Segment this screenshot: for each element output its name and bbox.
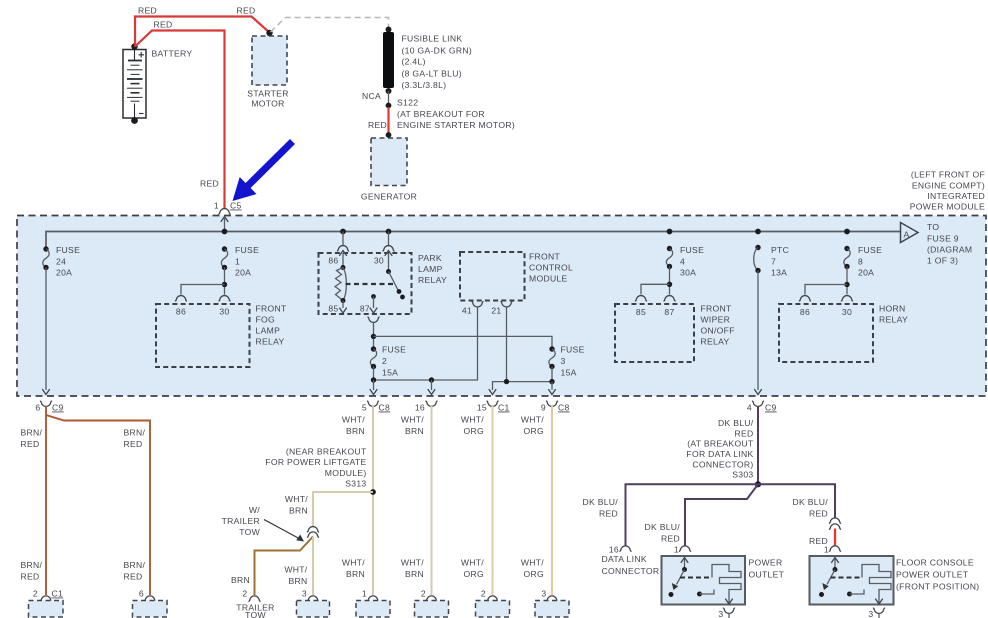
svg-text:7: 7 — [771, 256, 776, 266]
wire WHT/ORG pin 15 down — [461, 406, 493, 595]
svg-text:BRN: BRN — [288, 576, 307, 586]
svg-text:RED: RED — [138, 6, 157, 16]
wire DK BLU/RED S303 to floor console — [758, 484, 835, 518]
fuse F24 — [43, 245, 80, 278]
svg-text:MODULE: MODULE — [529, 274, 568, 284]
svg-text:2: 2 — [242, 589, 247, 599]
wire fuse 1 to front fog lamp relay — [181, 268, 227, 295]
svg-text:S313: S313 — [345, 479, 366, 489]
W/ TRAILER TOW label and annotation arrow — [222, 505, 304, 542]
starter motor M1 — [247, 36, 288, 109]
svg-text:41: 41 — [462, 306, 472, 316]
wire to pin 16 arrow — [428, 380, 435, 395]
svg-text:RED: RED — [21, 439, 40, 449]
power outlet heating element — [697, 565, 741, 605]
fuse F2 — [370, 345, 406, 378]
svg-text:RED: RED — [200, 179, 219, 189]
wire fuse 4 to front wiper relay — [641, 267, 672, 295]
connector pin 21 front control module — [491, 302, 512, 316]
svg-text:13A: 13A — [771, 268, 787, 278]
wire branch to fuse 3 — [374, 336, 553, 349]
svg-text:LAMP: LAMP — [418, 264, 443, 274]
svg-text:TOW: TOW — [245, 610, 266, 618]
svg-text:FOR POWER LIFTGATE: FOR POWER LIFTGATE — [265, 457, 366, 467]
svg-text:S122: S122 — [397, 98, 418, 108]
connector pin 2 bottom — [421, 589, 438, 602]
floor console outlet mechanical link (dashed) — [831, 577, 863, 579]
svg-text:16: 16 — [415, 403, 425, 413]
wire to pin 15 arrow — [489, 389, 496, 394]
wire WHT/BRN pin 16 down — [401, 406, 432, 595]
svg-text:RED: RED — [809, 509, 828, 519]
wire fuse 3 to pin 21 net — [493, 307, 555, 391]
svg-text:WHT/: WHT/ — [521, 558, 544, 568]
module box below pin 3 — [535, 601, 569, 618]
park lamp relay pin 85 arrow — [328, 301, 346, 314]
park lamp relay pin 30 arrow and switch — [374, 251, 405, 300]
svg-text:FRONT: FRONT — [256, 304, 288, 314]
module box below pin 2 — [415, 601, 449, 618]
connector pin 1 bottom — [362, 589, 379, 602]
blue annotation arrow — [233, 139, 296, 201]
svg-text:RED: RED — [661, 534, 680, 544]
svg-text:FUSE: FUSE — [56, 245, 80, 255]
svg-text:ORG: ORG — [464, 569, 484, 579]
svg-text:1: 1 — [674, 545, 679, 555]
wire WHT/BRN S313 branch to trailer tow connector — [285, 492, 373, 526]
wire WHT/BRN pin 5 down — [342, 406, 373, 595]
connector C1 pin 2 bottom left — [33, 589, 63, 602]
relay K1 front fog lamp relay — [156, 304, 287, 368]
svg-text:(AT BREAKOUT FOR: (AT BREAKOUT FOR — [397, 109, 485, 119]
svg-text:FUSE 9: FUSE 9 — [927, 234, 959, 244]
svg-text:ORG: ORG — [524, 569, 544, 579]
wire RED battery to starter motor — [135, 6, 270, 47]
connector pin 16 data link connector — [602, 545, 660, 577]
wire pin 87 to fuse 2 — [373, 322, 375, 349]
svg-text:CONNECTOR): CONNECTOR) — [692, 459, 753, 469]
park lamp relay mechanical link (dashed) — [346, 283, 395, 285]
floor console outlet switch — [819, 558, 839, 598]
svg-text:3: 3 — [718, 609, 723, 618]
svg-text:86: 86 — [328, 256, 338, 266]
svg-text:(10 GA-DK GRN): (10 GA-DK GRN) — [402, 46, 473, 56]
svg-text:30: 30 — [842, 307, 852, 317]
svg-text:1: 1 — [824, 545, 829, 555]
svg-text:RELAY: RELAY — [701, 337, 730, 347]
wire BRN/RED branch right — [46, 415, 150, 595]
node S122 — [386, 98, 515, 131]
svg-text:ORG: ORG — [464, 426, 484, 436]
svg-text:RED: RED — [368, 120, 387, 130]
power outlet box — [662, 556, 785, 605]
bus wire — [46, 232, 901, 250]
svg-text:21: 21 — [491, 306, 501, 316]
svg-text:BRN: BRN — [231, 575, 250, 585]
svg-text:6: 6 — [139, 589, 144, 599]
svg-text:3: 3 — [868, 609, 873, 618]
svg-text:LAMP: LAMP — [256, 326, 281, 336]
svg-text:C9: C9 — [765, 403, 777, 413]
connector pin 87 below park lamp relay — [367, 317, 379, 322]
connector C9 pin 4 — [747, 401, 777, 412]
svg-text:(LEFT FRONT OF: (LEFT FRONT OF — [911, 170, 985, 180]
inline connector floor console — [829, 518, 841, 529]
svg-text:FUSE: FUSE — [235, 245, 259, 255]
svg-text:87: 87 — [360, 304, 370, 314]
node S313 — [265, 447, 376, 495]
wire NCA fusible link to S122 — [362, 91, 389, 106]
wire BRN/RED pin 6 down — [21, 406, 47, 595]
svg-text:BRN: BRN — [405, 426, 424, 436]
svg-text:WHT/: WHT/ — [342, 558, 365, 568]
node bus fuse 4 — [667, 229, 673, 235]
node bus PTC 7 — [755, 229, 761, 235]
svg-text:PARK: PARK — [418, 253, 442, 263]
svg-text:WHT/: WHT/ — [461, 415, 484, 425]
svg-text:C8: C8 — [379, 403, 391, 413]
svg-text:TOW: TOW — [239, 527, 260, 537]
svg-text:DK BLU/: DK BLU/ — [582, 497, 618, 507]
relay K3 front wiper on/off relay — [615, 304, 735, 363]
module box below pin 2 second — [476, 601, 510, 618]
svg-text:POWER: POWER — [749, 558, 783, 568]
svg-text:(AT BREAKOUT: (AT BREAKOUT — [687, 439, 754, 449]
svg-text:30A: 30A — [680, 268, 696, 278]
svg-text:RED: RED — [599, 509, 618, 519]
svg-text:FRONT: FRONT — [529, 252, 561, 262]
svg-text:WHT/: WHT/ — [285, 494, 308, 504]
module box below pin 6 — [133, 601, 168, 618]
wire to pin 9 arrow — [548, 382, 555, 395]
connector pin 1 floor console outlet — [824, 545, 841, 555]
svg-text:NCA: NCA — [362, 91, 381, 101]
svg-text:S303: S303 — [732, 470, 753, 480]
svg-text:RED: RED — [124, 439, 143, 449]
svg-text:TRAILER: TRAILER — [222, 516, 260, 526]
svg-text:GENERATOR: GENERATOR — [361, 192, 417, 202]
svg-text:RELAY: RELAY — [879, 315, 908, 325]
svg-text:FUSIBLE LINK: FUSIBLE LINK — [402, 34, 463, 44]
wire bus to park lamp relay pin 86 — [342, 232, 344, 246]
module box below pin 2 C1 — [29, 601, 64, 618]
wire bus to park lamp relay pin 30 — [388, 232, 390, 246]
svg-text:1: 1 — [214, 201, 219, 211]
fuse F8 — [844, 245, 882, 278]
svg-text:WHT/: WHT/ — [461, 558, 484, 568]
svg-text:16: 16 — [609, 545, 619, 555]
svg-text:MOTOR: MOTOR — [251, 99, 284, 109]
svg-text:(3.3L/3.8L): (3.3L/3.8L) — [402, 80, 447, 90]
svg-text:6: 6 — [35, 403, 40, 413]
svg-text:PTC: PTC — [771, 245, 789, 255]
wire to pin 5 arrow — [370, 380, 377, 395]
svg-text:BRN/: BRN/ — [124, 560, 146, 570]
wire fuse 2 to pin 41 net — [371, 307, 478, 383]
svg-text:FLOOR CONSOLE: FLOOR CONSOLE — [896, 558, 974, 568]
IPM header label — [910, 170, 985, 212]
svg-text:FUSE: FUSE — [561, 345, 585, 355]
svg-text:MODULE): MODULE) — [325, 468, 367, 478]
connector pin 30 front fog lamp relay — [218, 296, 230, 301]
svg-text:4: 4 — [747, 403, 752, 413]
off-page arrow A to fuse 9 — [901, 222, 973, 266]
wire DK BLU/RED pin 4 to S303 — [686, 406, 758, 484]
svg-text:BRN/: BRN/ — [21, 428, 43, 438]
svg-text:FUSE: FUSE — [382, 345, 406, 355]
park lamp relay pin 87 — [360, 294, 377, 313]
svg-text:WIPER: WIPER — [701, 315, 731, 325]
relay K2 park lamp relay — [319, 253, 448, 314]
power outlet mechanical link (dashed) — [680, 577, 712, 579]
svg-text:RELAY: RELAY — [256, 337, 285, 347]
node bus fuse 8 — [844, 229, 850, 235]
floor console outlet heating element — [847, 565, 891, 605]
svg-text:3: 3 — [541, 589, 546, 599]
wire PTC 7 to pin 4 — [754, 271, 761, 395]
svg-text:15A: 15A — [561, 368, 577, 378]
svg-text:(2.4L): (2.4L) — [402, 57, 426, 67]
wire fuse 8 to horn relay — [805, 267, 850, 295]
PTC 7 — [754, 245, 789, 278]
fuse F3 — [549, 345, 585, 378]
node fuse2 branch — [371, 334, 376, 339]
svg-text:INTEGRATED: INTEGRATED — [927, 191, 985, 201]
svg-text:RED: RED — [236, 6, 255, 16]
svg-text:3: 3 — [302, 589, 307, 599]
connector pin 2 bottom second — [481, 589, 499, 602]
wire WHT/ORG pin 9 down — [521, 406, 552, 595]
svg-text:BATTERY: BATTERY — [152, 49, 193, 59]
svg-text:POWER OUTLET: POWER OUTLET — [896, 570, 969, 580]
connector pin 3 bottom — [541, 589, 558, 602]
svg-text:1: 1 — [235, 256, 240, 266]
wire DK BLU/RED S303 to data link connector — [582, 484, 758, 546]
svg-text:30: 30 — [374, 256, 384, 266]
svg-text:5: 5 — [362, 403, 367, 413]
svg-text:TO: TO — [927, 222, 939, 232]
node S303 — [755, 481, 761, 487]
svg-text:FOR DATA LINK: FOR DATA LINK — [686, 449, 753, 459]
svg-text:15: 15 — [477, 403, 487, 413]
svg-text:2: 2 — [382, 356, 387, 366]
connector pin 85 front wiper relay — [635, 296, 647, 301]
connector pin 3 trailer column — [302, 589, 319, 602]
wire NCA starter to fusible link (dashed) — [271, 18, 389, 33]
svg-text:RED: RED — [124, 572, 143, 582]
connector pin 3 floor console outlet — [868, 599, 885, 618]
svg-text:3: 3 — [561, 356, 566, 366]
svg-text:BRN: BRN — [289, 506, 308, 516]
connector C9 pin 6 — [35, 401, 63, 412]
svg-text:RED: RED — [734, 428, 753, 438]
module box below pin 1 — [356, 601, 390, 618]
svg-text:BRN/: BRN/ — [21, 560, 43, 570]
park lamp relay coil — [335, 265, 346, 303]
connector pin 2 trailer tow — [236, 589, 274, 618]
fuse F4 — [666, 245, 704, 278]
svg-text:FUSE: FUSE — [858, 245, 882, 255]
svg-text:ORG: ORG — [524, 426, 544, 436]
svg-text:DK BLU/: DK BLU/ — [644, 522, 680, 532]
svg-text:OUTLET: OUTLET — [749, 570, 785, 580]
svg-text:A: A — [904, 230, 910, 240]
svg-text:C8: C8 — [558, 403, 570, 413]
connector pin 87 front wiper relay — [663, 296, 675, 301]
svg-text:BRN: BRN — [405, 569, 424, 579]
connector pin 6 bottom — [139, 589, 156, 602]
svg-text:86: 86 — [176, 307, 186, 317]
node battery-starter junction — [266, 30, 272, 36]
connector pin 86 front fog lamp relay — [175, 296, 187, 301]
svg-text:1: 1 — [362, 589, 367, 599]
svg-text:BRN: BRN — [346, 426, 365, 436]
svg-text:4: 4 — [680, 256, 685, 266]
inline connector w/ trailer tow — [307, 527, 319, 538]
svg-text:85: 85 — [328, 304, 338, 314]
svg-text:WHT/: WHT/ — [342, 415, 365, 425]
wire WHT/BRN trailer connector to pin 3 — [284, 537, 313, 595]
svg-text:FUSE: FUSE — [680, 245, 704, 255]
wire RED battery to C5 — [135, 20, 225, 209]
svg-text:RELAY: RELAY — [418, 275, 447, 285]
connector pin 3 power outlet — [718, 599, 735, 618]
svg-text:C5: C5 — [230, 201, 242, 211]
connector pin 41 front control module — [462, 302, 484, 316]
svg-text:C1: C1 — [52, 589, 64, 599]
svg-text:C1: C1 — [498, 403, 510, 413]
svg-text:RED: RED — [21, 572, 40, 582]
node bus park relay 86 — [340, 229, 346, 235]
svg-text:HORN: HORN — [879, 304, 906, 314]
svg-text:2: 2 — [33, 589, 38, 599]
connector C5 pin 1 — [214, 201, 242, 232]
svg-text:2: 2 — [421, 589, 426, 599]
svg-text:20A: 20A — [56, 268, 72, 278]
wire BRN to trailer tow — [231, 537, 313, 596]
svg-text:9: 9 — [541, 403, 546, 413]
svg-text:85: 85 — [636, 307, 646, 317]
floor console power outlet box — [810, 556, 980, 605]
svg-text:CONTROL: CONTROL — [529, 263, 573, 273]
connector pin 86 horn relay — [799, 296, 811, 301]
svg-text:BRN/: BRN/ — [124, 428, 146, 438]
svg-text:FOG: FOG — [256, 315, 276, 325]
wire RED to floor console outlet — [809, 529, 835, 547]
svg-text:(8 GA-LT BLU): (8 GA-LT BLU) — [402, 69, 462, 79]
battery B1 — [123, 43, 192, 124]
svg-text:WHT/: WHT/ — [401, 415, 424, 425]
svg-text:CONNECTOR: CONNECTOR — [602, 566, 660, 576]
connector pin 16 (IPM) — [415, 401, 438, 412]
svg-text:20A: 20A — [858, 268, 874, 278]
svg-text:(DIAGRAM: (DIAGRAM — [927, 245, 972, 255]
svg-text:ENGINE COMPT): ENGINE COMPT) — [912, 180, 985, 190]
svg-text:WHT/: WHT/ — [284, 565, 307, 575]
power outlet switch — [669, 558, 689, 598]
svg-text:30: 30 — [219, 307, 229, 317]
connector C8 pin 9 — [541, 401, 570, 412]
wire fuse 24 to pin 6 — [42, 268, 49, 395]
svg-text:BRN: BRN — [346, 569, 365, 579]
module box below trailer pin 3 — [297, 601, 330, 618]
svg-text:ON/OFF: ON/OFF — [701, 326, 735, 336]
svg-text:DK BLU/: DK BLU/ — [792, 497, 828, 507]
svg-text:24: 24 — [56, 256, 66, 266]
svg-text:STARTER: STARTER — [247, 89, 288, 99]
svg-text:86: 86 — [800, 307, 810, 317]
svg-text:(NEAR BREAKOUT: (NEAR BREAKOUT — [286, 447, 367, 457]
wire RED S122 to generator — [368, 107, 391, 138]
connector pin 1 power outlet — [674, 545, 691, 555]
svg-text:RED: RED — [153, 20, 172, 30]
svg-text:FRONT: FRONT — [701, 304, 733, 314]
node bus park relay 30 — [386, 229, 392, 235]
svg-text:87: 87 — [664, 307, 674, 317]
connector pin 30 park lamp relay — [382, 246, 394, 251]
front control module box — [460, 252, 573, 301]
svg-text:2: 2 — [481, 589, 486, 599]
svg-text:C9: C9 — [52, 403, 64, 413]
svg-text:(FRONT POSITION): (FRONT POSITION) — [896, 582, 979, 592]
svg-text:DK BLU/: DK BLU/ — [718, 418, 754, 428]
svg-text:POWER MODULE: POWER MODULE — [910, 202, 985, 212]
svg-text:W/: W/ — [249, 505, 260, 515]
svg-text:15A: 15A — [382, 368, 398, 378]
svg-text:WHT/: WHT/ — [401, 558, 424, 568]
svg-text:8: 8 — [858, 256, 863, 266]
connector C1 pin 15 — [477, 401, 510, 412]
relay K4 horn relay — [779, 304, 908, 363]
connector pin 86 park lamp relay — [337, 246, 349, 251]
connector pin 30 horn relay — [841, 296, 853, 301]
fusible link F1 — [383, 27, 472, 95]
fuse F1 — [221, 245, 259, 278]
connector C8 pin 5 — [362, 401, 390, 412]
svg-text:20A: 20A — [235, 268, 251, 278]
generator G1 — [361, 138, 417, 202]
svg-text:1 OF 3): 1 OF 3) — [927, 256, 958, 266]
park lamp relay pin 86 arrow — [328, 251, 346, 268]
svg-text:ENGINE STARTER MOTOR): ENGINE STARTER MOTOR) — [397, 120, 515, 130]
svg-text:WHT/: WHT/ — [521, 415, 544, 425]
node bus C5 — [222, 229, 228, 235]
svg-text:DATA LINK: DATA LINK — [602, 554, 647, 564]
wire DK BLU/RED S303 to power outlet — [644, 484, 758, 546]
integrated power module box — [17, 216, 986, 397]
